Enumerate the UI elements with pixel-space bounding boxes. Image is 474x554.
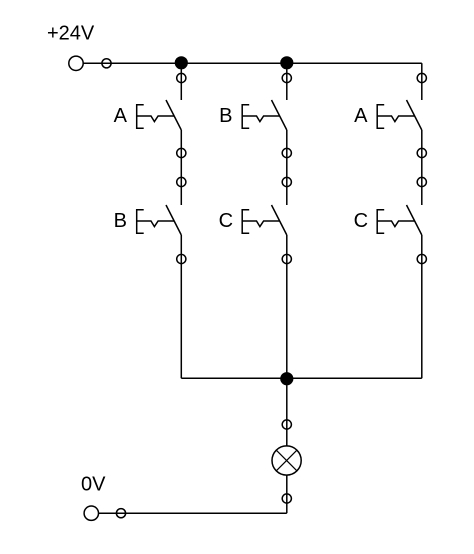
svg-text:C: C [219, 210, 233, 232]
terminal circle branch 2 mid upper [282, 148, 291, 157]
svg-text:0V: 0V [81, 474, 106, 496]
terminal circle above lamp [282, 420, 291, 429]
wire branch 1 between switches [180, 130, 182, 205]
wire branch 2 between switches [286, 130, 288, 205]
switch S1 actuator link [137, 116, 175, 122]
switch S5 contact blade [272, 205, 287, 235]
switch S1 actuator bracket [137, 105, 144, 129]
terminal circle branch 2 bottom [282, 254, 291, 263]
switch S1 contact blade [166, 100, 181, 130]
wire bottom return to 0V [98, 512, 287, 514]
lamp H1 body [272, 446, 301, 475]
wire from J3 down to lamp [286, 378, 288, 446]
svg-text:B: B [219, 105, 232, 127]
svg-text:C: C [354, 210, 368, 232]
terminal circle branch 3 mid lower [417, 177, 426, 186]
svg-text:B: B [114, 210, 127, 232]
switch S2 contact blade [272, 100, 287, 130]
terminal circle branch 1 mid lower [177, 177, 186, 186]
wire branch 2 down to bottom rail [286, 235, 288, 378]
wire branch 3 between switches [421, 130, 423, 205]
switch S3 actuator link [377, 116, 415, 122]
terminal circle branch 1 mid upper [177, 148, 186, 157]
terminal circle branch 3 mid upper [417, 148, 426, 157]
terminal circle below lamp [282, 494, 291, 503]
switch S4 actuator link [137, 221, 175, 227]
terminal circle branch 3 bottom [417, 254, 426, 263]
switch S4 contact blade [166, 205, 181, 235]
terminal circle branch 1 bottom [177, 254, 186, 263]
lamp H1 cross stroke 2 [276, 450, 297, 471]
lamp H1 cross stroke 1 [276, 450, 297, 471]
wire branch 1 down to bottom rail [180, 235, 182, 378]
terminal circle branch 1 top [177, 73, 186, 82]
switch S2 actuator link [242, 116, 280, 122]
wire branch 3 from top rail to switch S3 [421, 63, 423, 100]
junction node J3 on collector rail [280, 372, 293, 385]
svg-text:+24V: +24V [47, 22, 95, 44]
wire branch 2 from top rail to switch S2 [286, 63, 288, 100]
junction node J1 on top rail [175, 56, 188, 69]
switch S6 contact blade [407, 205, 422, 235]
terminal 0V outer circle [84, 506, 98, 520]
terminal +24V outer circle [69, 56, 83, 70]
switch S6 actuator bracket [377, 210, 384, 234]
svg-text:A: A [354, 105, 368, 127]
wire from lamp down [286, 475, 288, 513]
switch S3 contact blade [407, 100, 422, 130]
svg-text:A: A [114, 105, 128, 127]
switch S2 actuator bracket [242, 105, 249, 129]
wire bottom collector rail [181, 377, 421, 379]
switch S5 actuator bracket [242, 210, 249, 234]
junction node J2 on top rail [280, 56, 293, 69]
terminal 0V inner connection circle [116, 509, 125, 518]
wire top supply rail [83, 62, 422, 64]
terminal circle branch 2 top [282, 73, 291, 82]
terminal circle branch 2 mid lower [282, 177, 291, 186]
switch S6 actuator link [377, 221, 415, 227]
switch S5 actuator link [242, 221, 280, 227]
switch S4 actuator bracket [137, 210, 144, 234]
terminal circle branch 3 top [417, 73, 426, 82]
terminal +24V inner connection circle [102, 59, 111, 68]
wire branch 1 from top rail to switch S1 [180, 63, 182, 100]
switch S3 actuator bracket [377, 105, 384, 129]
wire branch 3 down to bottom rail [421, 235, 423, 378]
